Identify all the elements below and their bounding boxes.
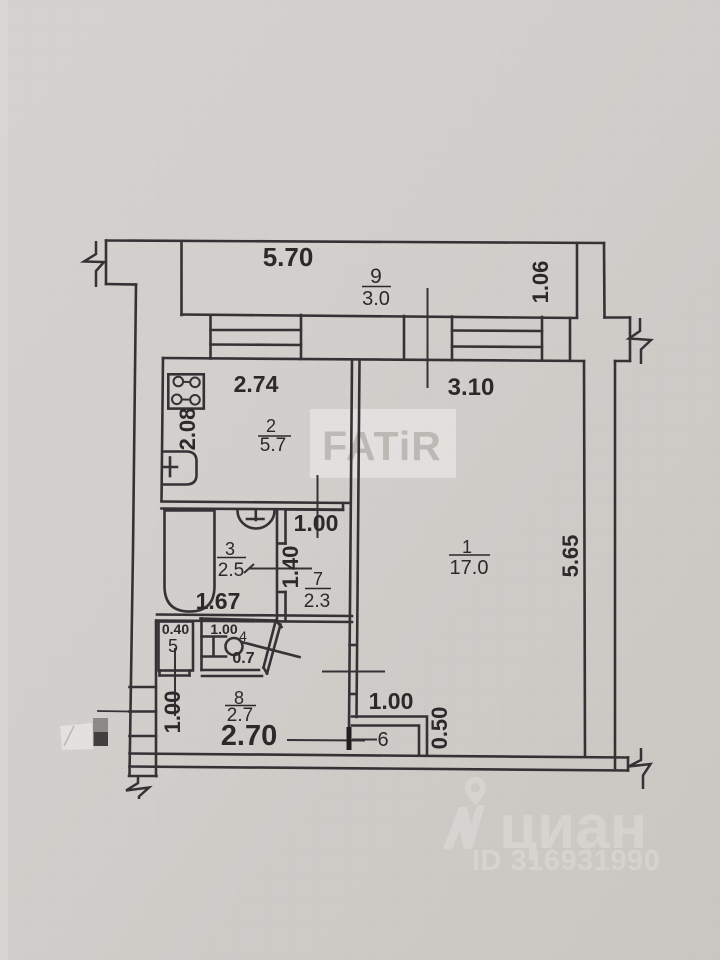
svg-text:1.40: 1.40 — [278, 546, 303, 589]
svg-text:3.10: 3.10 — [448, 374, 495, 401]
svg-text:5.7: 5.7 — [260, 435, 286, 456]
svg-text:3.0: 3.0 — [362, 288, 390, 310]
svg-text:2.5: 2.5 — [218, 560, 244, 581]
svg-text:2.70: 2.70 — [221, 720, 277, 752]
svg-text:1.00: 1.00 — [210, 621, 237, 637]
svg-text:1.00: 1.00 — [160, 691, 185, 734]
svg-text:2: 2 — [266, 416, 276, 436]
svg-text:5.65: 5.65 — [558, 535, 583, 578]
svg-text:5: 5 — [168, 636, 178, 656]
svg-text:1.67: 1.67 — [196, 588, 241, 614]
svg-text:1: 1 — [462, 537, 472, 557]
svg-text:3: 3 — [225, 539, 235, 559]
svg-text:1.06: 1.06 — [528, 261, 553, 304]
svg-text:6: 6 — [377, 729, 388, 751]
svg-text:4: 4 — [239, 628, 247, 644]
svg-text:FATiR: FATiR — [322, 423, 442, 469]
svg-text:ID 316931990: ID 316931990 — [472, 845, 660, 877]
svg-text:0.40: 0.40 — [162, 621, 189, 637]
svg-text:2.08: 2.08 — [175, 408, 200, 451]
svg-text:17.0: 17.0 — [450, 557, 489, 579]
svg-text:1.00: 1.00 — [294, 510, 339, 536]
svg-text:5.70: 5.70 — [263, 242, 314, 272]
svg-text:0.7: 0.7 — [232, 650, 254, 667]
svg-text:2.74: 2.74 — [234, 371, 279, 397]
svg-text:2.3: 2.3 — [304, 591, 330, 612]
svg-text:0.50: 0.50 — [427, 707, 452, 750]
svg-text:7: 7 — [313, 569, 323, 589]
svg-text:1.00: 1.00 — [369, 688, 414, 714]
svg-text:9: 9 — [370, 265, 382, 288]
